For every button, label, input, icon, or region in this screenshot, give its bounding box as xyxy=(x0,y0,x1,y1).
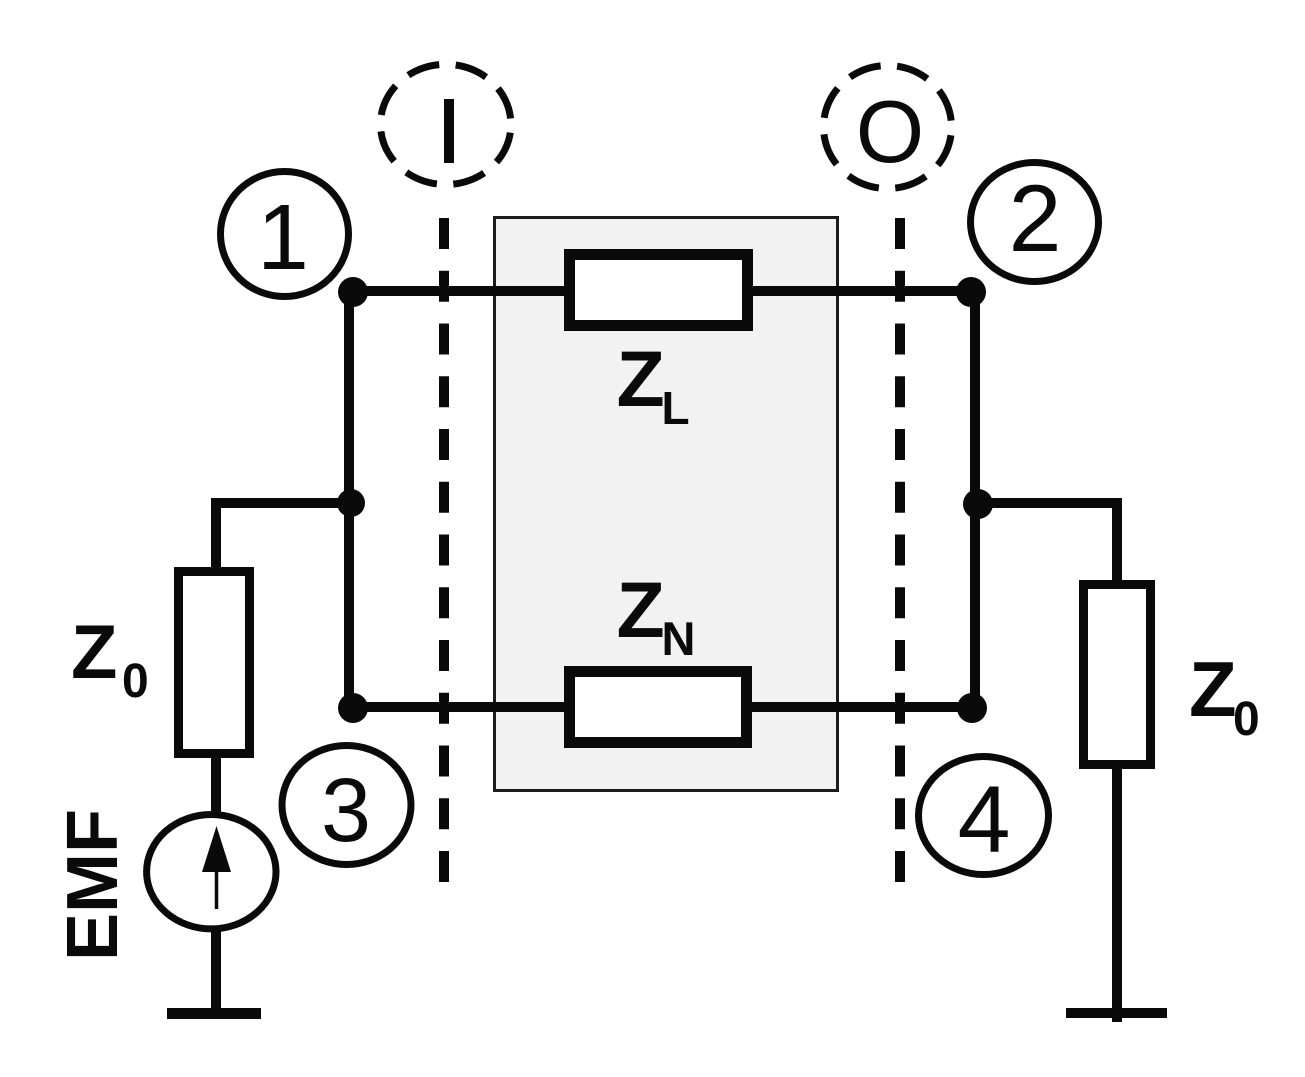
svg-text:Z: Z xyxy=(617,334,665,423)
svg-text:2: 2 xyxy=(1009,166,1062,272)
svg-text:0: 0 xyxy=(1233,693,1260,746)
svg-text:L: L xyxy=(662,382,690,434)
svg-text:O: O xyxy=(856,82,924,181)
svg-text:0: 0 xyxy=(122,655,149,708)
svg-text:Z: Z xyxy=(1189,645,1237,733)
svg-text:Z: Z xyxy=(71,610,117,695)
svg-text:N: N xyxy=(662,612,696,665)
svg-text:1: 1 xyxy=(257,185,309,289)
svg-text:Z: Z xyxy=(617,565,665,654)
svg-text:EMF: EMF xyxy=(53,809,133,961)
svg-text:3: 3 xyxy=(321,761,371,861)
svg-text:4: 4 xyxy=(958,767,1011,873)
